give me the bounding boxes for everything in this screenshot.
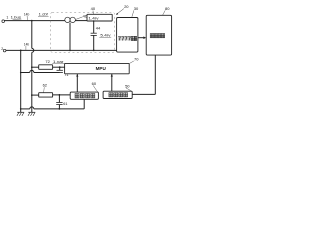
label 20	[116, 4, 129, 15]
label 62	[43, 83, 48, 93]
wire coil-to-bus2	[69, 23, 71, 52]
wire C71 top lead	[59, 67, 61, 70]
hop B over bus2	[32, 48, 34, 52]
wire C61 top lead	[58, 95, 60, 103]
label 50	[125, 83, 131, 91]
junction R62-C61	[59, 94, 61, 96]
svg-text:2: 2	[1, 47, 3, 51]
capacitor C44	[91, 33, 97, 35]
junction B-R62 stub	[31, 94, 33, 96]
junction A-w1	[20, 72, 22, 74]
label 1.bus	[11, 15, 22, 20]
wire w1 right	[34, 72, 60, 74]
wire MPU-boxB	[111, 74, 113, 91]
svg-text:62: 62	[43, 83, 48, 88]
resistor R72	[39, 65, 53, 70]
svg-text:20: 20	[124, 4, 129, 9]
capacitor C71	[57, 70, 63, 72]
svg-text:MPU: MPU	[96, 66, 107, 71]
label 1.cbf	[38, 12, 49, 17]
wire bus1 left	[5, 20, 65, 22]
svg-text:14b: 14b	[24, 12, 30, 16]
svg-text:40: 40	[91, 6, 96, 11]
junction C44-bus2	[93, 50, 95, 52]
wire bus1 right	[75, 20, 87, 22]
wire stub to R72	[32, 66, 39, 68]
wire piezo-receiver	[132, 55, 155, 94]
junction R72-C71	[59, 66, 61, 68]
wire drive-piezo arrow	[138, 36, 146, 39]
wire MPU-boxA	[76, 74, 78, 92]
resistor R62	[39, 93, 53, 97]
svg-text:1.4rv: 1.4rv	[88, 16, 99, 21]
wire C44 top lead	[93, 21, 95, 33]
wire C61 bottom lead	[58, 105, 60, 109]
label 14b (top)	[24, 12, 30, 20]
svg-text:30: 30	[134, 6, 139, 11]
wire vertical B upper	[31, 21, 33, 49]
wire stub to R62	[32, 94, 39, 96]
capacitor C61	[56, 103, 62, 105]
label 5.4rv	[99, 33, 111, 38]
drive circuit box 30	[117, 18, 138, 53]
MPU box	[65, 63, 130, 73]
wire w2 right	[34, 108, 84, 110]
label 14b (lower)	[24, 42, 30, 50]
svg-text:80: 80	[165, 6, 170, 11]
label 44	[96, 26, 101, 31]
svg-text:5.4rv: 5.4rv	[100, 33, 111, 38]
label 61	[63, 102, 67, 106]
wire w2 left	[21, 108, 30, 110]
label 1.var	[52, 59, 64, 63]
junction box40-C44	[93, 20, 95, 22]
piezo box 80	[146, 15, 171, 55]
svg-text:60: 60	[92, 81, 97, 86]
label 70	[130, 57, 140, 64]
label 71	[64, 73, 68, 77]
drive circuit text	[118, 36, 137, 40]
ground under A	[17, 112, 24, 116]
hop w1 over B	[30, 70, 34, 72]
svg-text:1.cbf: 1.cbf	[39, 12, 49, 17]
svg-text:44: 44	[96, 26, 101, 31]
terminal 1	[2, 15, 8, 22]
oscillator box 60	[70, 92, 98, 99]
svg-text:72: 72	[45, 59, 50, 64]
wire vertical A	[20, 50, 22, 112]
ground under B	[28, 112, 35, 116]
junction B-R72 stub	[31, 66, 33, 68]
label 72	[45, 59, 50, 64]
svg-text:14b: 14b	[24, 42, 30, 46]
label 46	[76, 13, 88, 19]
hop w2 over B	[30, 107, 34, 109]
svg-text:50: 50	[125, 83, 130, 88]
svg-text:70: 70	[134, 57, 139, 62]
junction A-w2	[20, 108, 22, 110]
dashed enclosure 20	[51, 13, 115, 53]
wire R62 to boxA	[53, 94, 71, 96]
junction bus2-A	[20, 50, 22, 52]
receiver box 50	[103, 91, 132, 98]
oscillator box text	[75, 94, 95, 98]
label 60	[92, 81, 98, 92]
boost box text	[88, 16, 99, 21]
piezo box text	[150, 34, 164, 38]
terminal 2	[1, 47, 6, 52]
wire R72 to MPU	[53, 66, 65, 68]
wire w1 left	[21, 72, 30, 74]
wire bus2	[6, 49, 117, 51]
svg-text:1.var: 1.var	[53, 59, 64, 63]
junction bus1-B	[31, 20, 33, 22]
MPU text	[96, 66, 107, 71]
svg-text:1.bus: 1.bus	[11, 15, 21, 20]
coil 46	[65, 17, 76, 22]
receiver box text	[109, 93, 128, 97]
boost box 40	[87, 14, 112, 21]
wire w2 up to boxA	[83, 99, 85, 109]
wire vertical B lower	[31, 52, 33, 112]
svg-text:1: 1	[6, 15, 8, 19]
label 80	[163, 6, 171, 15]
junction C61-w2	[59, 108, 61, 110]
svg-text:61: 61	[63, 102, 67, 106]
label 30	[132, 6, 139, 17]
label 40	[91, 6, 96, 14]
wire C44 bottom lead	[93, 35, 95, 50]
